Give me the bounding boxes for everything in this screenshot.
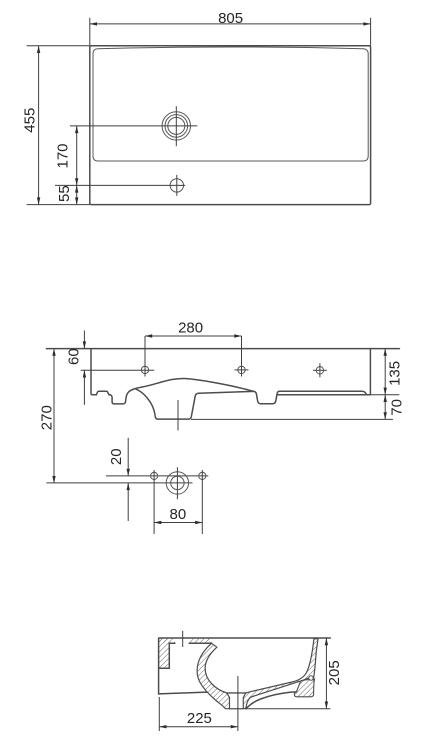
drain centerline horizontal (detail) = 270 extension (46, 482, 192, 484)
faucet hole 1 (front view) (81, 336, 155, 377)
drain centerline vertical (top view) (175, 106, 177, 146)
drain recess and spigot (section) (227, 693, 246, 709)
drain hole (top view) (162, 112, 190, 140)
dim 135 (384, 349, 404, 395)
overflow hole (top view) (170, 179, 183, 192)
fixing holes centerline horizontal (106, 475, 208, 477)
section rim line with extension (159, 637, 330, 639)
section back bottom line (159, 692, 207, 694)
svg-text:60: 60 (66, 348, 83, 365)
svg-text:225: 225 (187, 710, 212, 727)
drain hole (detail) (166, 467, 188, 499)
svg-text:280: 280 (178, 319, 203, 336)
svg-text:55: 55 (56, 185, 73, 202)
dim 805 extension line left (89, 18, 91, 46)
section underside silhouette line (246, 692, 297, 709)
dim 270 (39, 349, 56, 484)
svg-text:270: 270 (39, 405, 56, 430)
dim 60 (66, 331, 87, 405)
overflow centerline horizontal (55, 184, 185, 186)
dim 455 extension line top (27, 45, 90, 47)
dim 225 (159, 710, 238, 728)
keyhole slot 2 (253, 391, 279, 403)
fixing hole left (151, 470, 158, 534)
svg-text:135: 135 (387, 361, 404, 386)
dim 170 (55, 126, 79, 185)
overflow centerline vertical (176, 175, 178, 196)
dim 805 extension line right (370, 18, 372, 46)
front view top edge with extensions (46, 348, 399, 350)
extension line bottom of boss to 70 dim (191, 418, 393, 420)
svg-text:70: 70 (388, 399, 405, 416)
svg-text:80: 80 (170, 506, 187, 523)
keyhole slot 1 (110, 391, 129, 404)
svg-text:170: 170 (55, 143, 72, 168)
section bowl band (hatched) (197, 639, 318, 709)
dim 55 (56, 185, 78, 204)
front view right edge (369, 349, 371, 395)
front bottom edge right (277, 394, 399, 396)
dim 80 (154, 506, 202, 524)
drain centerline (section) (237, 676, 239, 731)
dim 205 (325, 638, 343, 709)
bowl hump silhouette (129, 379, 253, 392)
dim 70 (384, 395, 406, 420)
apron inner line right (280, 391, 367, 395)
dim 455 extension line bottom (27, 204, 90, 206)
faucet hole 3 (front view) (313, 363, 327, 377)
svg-text:20: 20 (108, 448, 125, 465)
fixing hole right (199, 470, 206, 534)
svg-text:455: 455 (21, 108, 38, 133)
front view left edge (91, 349, 96, 395)
section front foot pad (294, 678, 314, 697)
dim 455 (21, 46, 40, 205)
section deck strip (hatched) (159, 638, 212, 643)
dim 20 (108, 438, 130, 521)
section back wall (hatched) (159, 638, 170, 694)
drain centerline (front view) (177, 400, 179, 431)
top view outer outline (90, 46, 371, 205)
dim 280 (145, 319, 242, 337)
faucet hole centerline (section) (182, 631, 184, 647)
overflow hole (section) (309, 676, 313, 680)
drain centerline horizontal (top view) (70, 125, 197, 127)
svg-text:805: 805 (218, 10, 243, 27)
top view basin rim (93, 47, 368, 161)
mounting bump left (96, 391, 110, 395)
dim 805 (90, 10, 371, 27)
dim 225 extension line left (158, 697, 160, 731)
svg-text:205: 205 (326, 660, 343, 685)
extension line bottom (section) (246, 708, 331, 710)
faucet hole 2 (front view) (235, 336, 249, 377)
drain boss (front view) (136, 389, 254, 419)
